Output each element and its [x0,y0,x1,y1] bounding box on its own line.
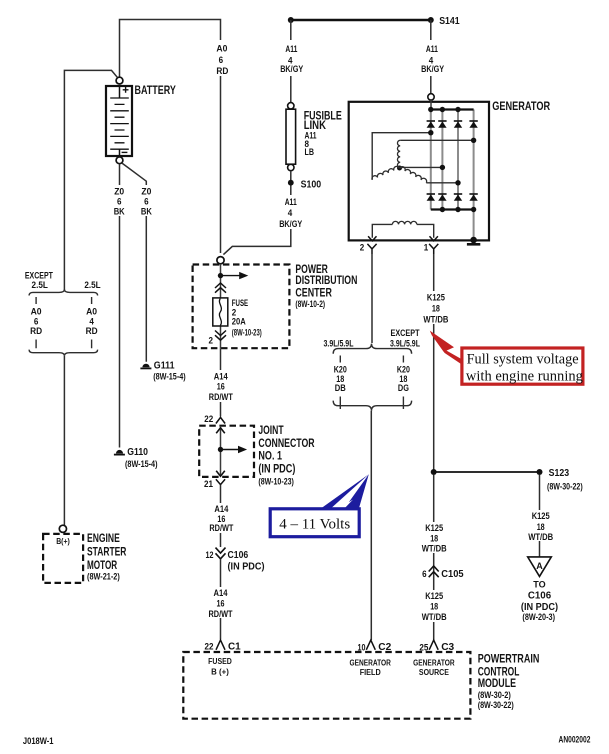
rectifier top bus dots [428,107,433,112]
svg-text:3.9L/5.9L: 3.9L/5.9L [390,338,420,349]
svg-text:CENTER: CENTER [295,287,332,299]
label K125 18 WT/DB (upper) [421,291,449,325]
svg-text:AN002002: AN002002 [559,734,591,744]
svg-text:J018W-1: J018W-1 [23,736,54,746]
svg-text:(8W-10-23): (8W-10-23) [258,476,294,486]
wire A0 right branch ticks [91,297,93,348]
svg-text:18: 18 [537,522,545,533]
label A11 4 BK/GY wire (left S141 drop) [278,40,305,76]
node S100 [288,180,294,186]
wire C106 to C1 [220,559,222,640]
svg-text:10: 10 [358,642,366,653]
svg-text:WT/DB: WT/DB [422,544,447,555]
svg-text:GENERATOR: GENERATOR [413,658,455,667]
svg-text:(8W-10-23): (8W-10-23) [232,328,262,338]
connector chevrons below fuse [215,331,226,341]
rectifier bottom bus dots [440,207,445,212]
node S141 right dot [428,17,434,23]
svg-text:JOINT: JOINT [258,425,283,437]
wire S141 to generator [430,20,432,94]
diode D5 [427,194,435,201]
svg-text:BK/GY: BK/GY [280,64,304,75]
terminal 2 Y connector [367,244,376,254]
wire K20 right branch ticks [402,356,404,410]
rectifier leg 3 [457,110,459,210]
svg-text:22: 22 [205,642,214,653]
node dot leg2 [440,165,445,170]
diode D1 [427,121,435,128]
label A11 4 BK/GY (below S100) [277,195,304,230]
connector chevrons above fuse [215,283,226,293]
svg-text:FUSED: FUSED [208,657,232,666]
svg-text:CONTROL: CONTROL [478,666,520,678]
svg-text:B (+): B (+) [211,668,229,677]
ground G110 [114,450,125,455]
svg-text:1: 1 [424,243,429,254]
svg-text:MOTOR: MOTOR [87,560,118,572]
generator box [349,102,489,241]
wire generator output (terminal 1) to junction [433,254,435,472]
rectifier leg 4 (to ground) [473,110,475,241]
svg-text:K125: K125 [427,292,446,303]
svg-text:WT/DB: WT/DB [528,532,553,543]
svg-text:MODULE: MODULE [478,678,517,690]
svg-text:18: 18 [432,303,440,314]
label Z0 6 BK (right) [139,185,154,217]
wire battery negative left (Z0 to G110) [119,164,121,448]
svg-text:A: A [536,561,543,572]
stator winding C (lower-right scallops) [400,167,427,183]
label K125 18 WT/DB (lower) [420,590,448,623]
connector C106 chevrons [216,548,226,559]
svg-text:18: 18 [430,602,438,613]
connector caret C3 [429,640,438,650]
stator phase A wire to leg 1 [372,133,431,180]
svg-text:POWERTRAIN: POWERTRAIN [478,654,540,666]
svg-text:A11: A11 [285,44,298,55]
wire A0 left branch ticks [35,297,37,348]
svg-text:A11: A11 [426,44,439,55]
svg-text:(IN PDC): (IN PDC) [228,560,265,572]
diode D3 [454,121,462,128]
node dot leg1 stator A [428,130,433,135]
callout blue arrow [321,474,369,509]
rectifier leg 1 [430,110,432,210]
svg-text:(8W-10-2): (8W-10-2) [295,299,325,309]
field terminal arrow 2 (in box) [368,236,376,241]
wire K20 left branch ticks [339,356,341,410]
svg-text:4: 4 [288,208,293,219]
svg-text:EXCEPT: EXCEPT [391,328,420,339]
svg-text:22: 22 [204,414,213,425]
diode D8 [469,194,477,201]
svg-text:DISTRIBUTION: DISTRIBUTION [295,275,357,287]
wire fusible link to S100 [290,171,292,180]
rectifier leg 2 [441,110,443,210]
svg-text:GENERATOR: GENERATOR [349,658,391,667]
battery B1 [106,77,132,164]
svg-text:WT/DB: WT/DB [423,314,448,325]
svg-text:B(+): B(+) [56,537,70,546]
svg-text:C106: C106 [228,549,249,561]
diode D7 [454,194,462,201]
node dot leg4 stator B [471,138,476,143]
ground G111 [140,364,151,369]
diode D2 [438,121,446,128]
label K125 18 WT/DB (middle) [420,522,448,555]
wire S123 branch down [539,475,541,557]
label A0 6 RD wire (battery feed) [212,40,230,77]
svg-text:6: 6 [219,55,224,66]
wire joint connector to C106 [220,485,222,547]
svg-text:POWER: POWER [295,264,328,276]
wire generator field (terminal 2) to brace [371,254,373,343]
svg-text:with engine running: with engine running [466,369,583,385]
connector caret C2 [366,640,375,650]
brace split (starter feed top) [29,289,98,295]
svg-text:(8W-15-4): (8W-15-4) [153,372,186,382]
wire junction to PCM C3 [433,475,435,640]
label K125 18 WT/DB (S123 branch) [526,510,554,543]
wire terminal into rectifier [430,100,432,109]
wire inside joint connector [220,427,222,477]
callout blue box: 4-11 Volts [270,509,359,537]
connector caret pin 21 [216,479,225,484]
svg-text:C106: C106 [528,590,551,602]
svg-text:S123: S123 [549,467,570,479]
svg-text:SOURCE: SOURCE [419,668,450,677]
connector C105 chevrons [429,566,439,577]
svg-text:2: 2 [360,243,365,254]
label A14 16 RD/WT (set 3) [207,587,234,620]
stator winding A (lower-left scallops) [372,166,399,179]
svg-text:(8W-21-2): (8W-21-2) [87,571,120,581]
svg-text:BK: BK [114,206,125,217]
svg-text:K125: K125 [425,523,444,534]
PDC terminal circle [217,257,224,264]
arrowhead out of joint connector [216,471,225,477]
wire left feed from battery junction to EXCEPT brace [64,70,117,290]
svg-text:A0: A0 [216,44,227,55]
svg-text:(8W-20-3): (8W-20-3) [522,612,555,622]
svg-text:12: 12 [206,550,214,561]
svg-text:C2: C2 [378,641,391,653]
svg-text:C3: C3 [441,641,454,653]
svg-text:RD/WT: RD/WT [209,609,233,620]
svg-text:4 – 11 Volts: 4 – 11 Volts [279,516,350,532]
svg-text:RD: RD [86,326,98,337]
svg-text:DG: DG [398,383,409,394]
svg-text:C1: C1 [228,640,241,652]
off-page connector A (triangle) [528,557,552,577]
svg-text:A11: A11 [285,197,298,208]
svg-text:RD: RD [30,326,42,337]
svg-text:G110: G110 [127,446,148,458]
label Z0 6 BK (left) [112,185,127,217]
svg-text:BK: BK [141,206,152,217]
fuse F2 20A [213,298,228,326]
svg-text:RD/WT: RD/WT [209,523,233,534]
svg-text:BK/GY: BK/GY [279,219,303,230]
svg-text:3.9L/5.9L: 3.9L/5.9L [324,338,354,349]
wire S141 to fusible link [290,20,292,103]
svg-text:(8W-30-22): (8W-30-22) [478,700,514,710]
svg-text:K125: K125 [532,511,551,522]
svg-text:S100: S100 [301,178,322,190]
svg-text:GENERATOR: GENERATOR [492,101,550,113]
rectifier bottom bus [431,208,474,210]
svg-text:LB: LB [305,147,315,158]
callout red arrow [430,331,454,352]
wire junction to S123 [434,471,540,473]
wire merged field wire to PCM C2 [370,411,372,640]
wire battery positive to A0 feed (top) [120,20,221,254]
svg-text:2.5L: 2.5L [32,280,48,291]
wire to engine starter motor [63,356,65,525]
junction dot with bus arrow (PDC) [218,273,223,278]
arrowhead into joint connector [216,428,225,434]
svg-text:CONNECTOR: CONNECTOR [258,438,315,450]
stator winding B (vertical scallops) [397,140,400,168]
svg-text:G111: G111 [154,360,175,372]
engine starter motor box [43,534,83,583]
node junction dot (main to S123) [431,469,437,475]
diode D6 [438,194,446,201]
engine starter motor terminal circle [59,525,66,532]
svg-text:2: 2 [209,336,214,347]
field winding L1 [372,224,433,237]
svg-text:DB: DB [335,383,346,394]
powertrain control module box [183,652,470,719]
svg-text:16: 16 [217,382,225,393]
svg-text:6: 6 [422,569,427,580]
wire S100 to PDC [223,186,290,255]
svg-text:Full system voltage: Full system voltage [467,352,579,368]
svg-text:WT/DB: WT/DB [422,612,447,623]
fusible link F1 [286,103,296,171]
svg-text:RD: RD [216,66,228,77]
svg-text:ENGINE: ENGINE [87,533,120,545]
svg-text:20A: 20A [232,317,246,328]
svg-text:STARTER: STARTER [87,546,127,558]
brace merge (starter feed bottom) [29,350,98,356]
svg-text:C105: C105 [441,568,463,580]
svg-text:BATTERY: BATTERY [135,85,177,97]
ground (generator case) [467,237,480,245]
stator phase B wire to leg 4 [400,139,473,141]
node dot leg3 stator C [455,180,460,185]
field terminal arrow 1 (in box) [430,236,438,241]
rectifier top bus [431,108,474,110]
svg-text:(8W-30-22): (8W-30-22) [547,481,583,491]
svg-text:21: 21 [204,479,214,490]
field winding coil humps [392,221,416,224]
svg-text:A14: A14 [214,588,229,599]
wire inside PDC [220,264,222,348]
svg-text:25: 25 [419,642,429,653]
svg-text:S141: S141 [439,15,460,27]
callout red box: Full system voltage [462,348,583,384]
svg-text:FIELD: FIELD [360,668,381,677]
connector caret C1 [216,640,225,650]
diode D4 [469,121,477,128]
junction dot with bus arrow (joint connector) [218,447,223,452]
joint connector no.1 box [199,426,254,477]
brace merge (field wire bottom) [333,401,411,411]
stator center wire to leg 2 [400,166,443,168]
node S141 left dot [288,17,294,23]
wire PDC to joint connector [220,348,222,416]
wire battery negative right (Z0 to G111) [122,163,147,362]
node S123 dot [537,469,543,475]
svg-text:BK/GY: BK/GY [421,64,445,75]
stator center node [397,166,402,171]
svg-text:(8W-30-2): (8W-30-2) [478,690,511,700]
stator phase C wire to leg 3 [426,182,458,184]
brace split (field wire top) [333,344,411,354]
svg-text:(IN PDC): (IN PDC) [258,463,295,475]
connector caret pin 22 [216,417,225,423]
terminal 1 Y connector [429,244,438,254]
node S141 bus [291,19,431,21]
label A11 4 BK/GY wire (right S141 drop) [419,40,446,76]
power distribution center box [193,265,290,349]
generator output terminal circle [428,94,434,100]
svg-text:NO. 1: NO. 1 [258,451,282,463]
svg-text:2.5L: 2.5L [84,280,100,291]
label A14 16 RD/WT (set 2) [207,503,234,534]
svg-text:RD/WT: RD/WT [209,392,233,403]
label A14 16 RD/WT (set 1) [207,370,234,403]
svg-text:(8W-15-4): (8W-15-4) [125,459,158,469]
